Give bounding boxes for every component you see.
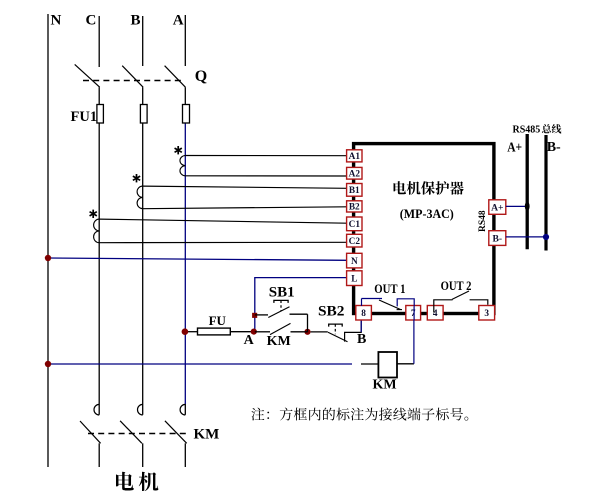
svg-text:KM: KM	[194, 426, 220, 442]
svg-text:7: 7	[411, 309, 416, 319]
svg-text:N: N	[351, 257, 358, 267]
svg-text:Q: Q	[195, 68, 207, 85]
svg-text:B: B	[131, 13, 141, 29]
svg-text:KM: KM	[267, 334, 291, 349]
svg-text:A+: A+	[507, 140, 522, 155]
svg-text:A: A	[173, 13, 184, 29]
svg-text:A2: A2	[349, 170, 361, 180]
svg-text:B2: B2	[349, 203, 360, 213]
svg-text:KM: KM	[373, 378, 397, 393]
svg-text:C: C	[86, 13, 97, 29]
svg-text:C2: C2	[349, 237, 361, 247]
svg-text:A: A	[244, 333, 255, 348]
svg-text:FU: FU	[209, 313, 227, 328]
svg-text:SB1: SB1	[269, 284, 295, 300]
svg-text:A1: A1	[349, 152, 361, 162]
svg-text:RS48: RS48	[478, 210, 488, 232]
svg-text:RS485: RS485	[513, 124, 541, 135]
svg-text:3: 3	[484, 309, 489, 319]
svg-text:L: L	[351, 274, 357, 284]
svg-text:FU1: FU1	[71, 109, 98, 125]
svg-text:SB2: SB2	[318, 304, 345, 320]
svg-text:(MP-3AC): (MP-3AC)	[400, 207, 454, 221]
svg-text:A+: A+	[491, 203, 503, 214]
svg-text:OUT 2: OUT 2	[441, 279, 472, 293]
svg-text:B: B	[357, 332, 366, 347]
svg-text:N: N	[51, 13, 62, 29]
svg-text:OUT 1: OUT 1	[374, 282, 405, 296]
svg-text:B-: B-	[547, 140, 561, 155]
svg-text:8: 8	[361, 309, 366, 319]
svg-text:B1: B1	[349, 186, 360, 196]
svg-text:B-: B-	[493, 234, 503, 245]
svg-text:C1: C1	[349, 220, 361, 230]
